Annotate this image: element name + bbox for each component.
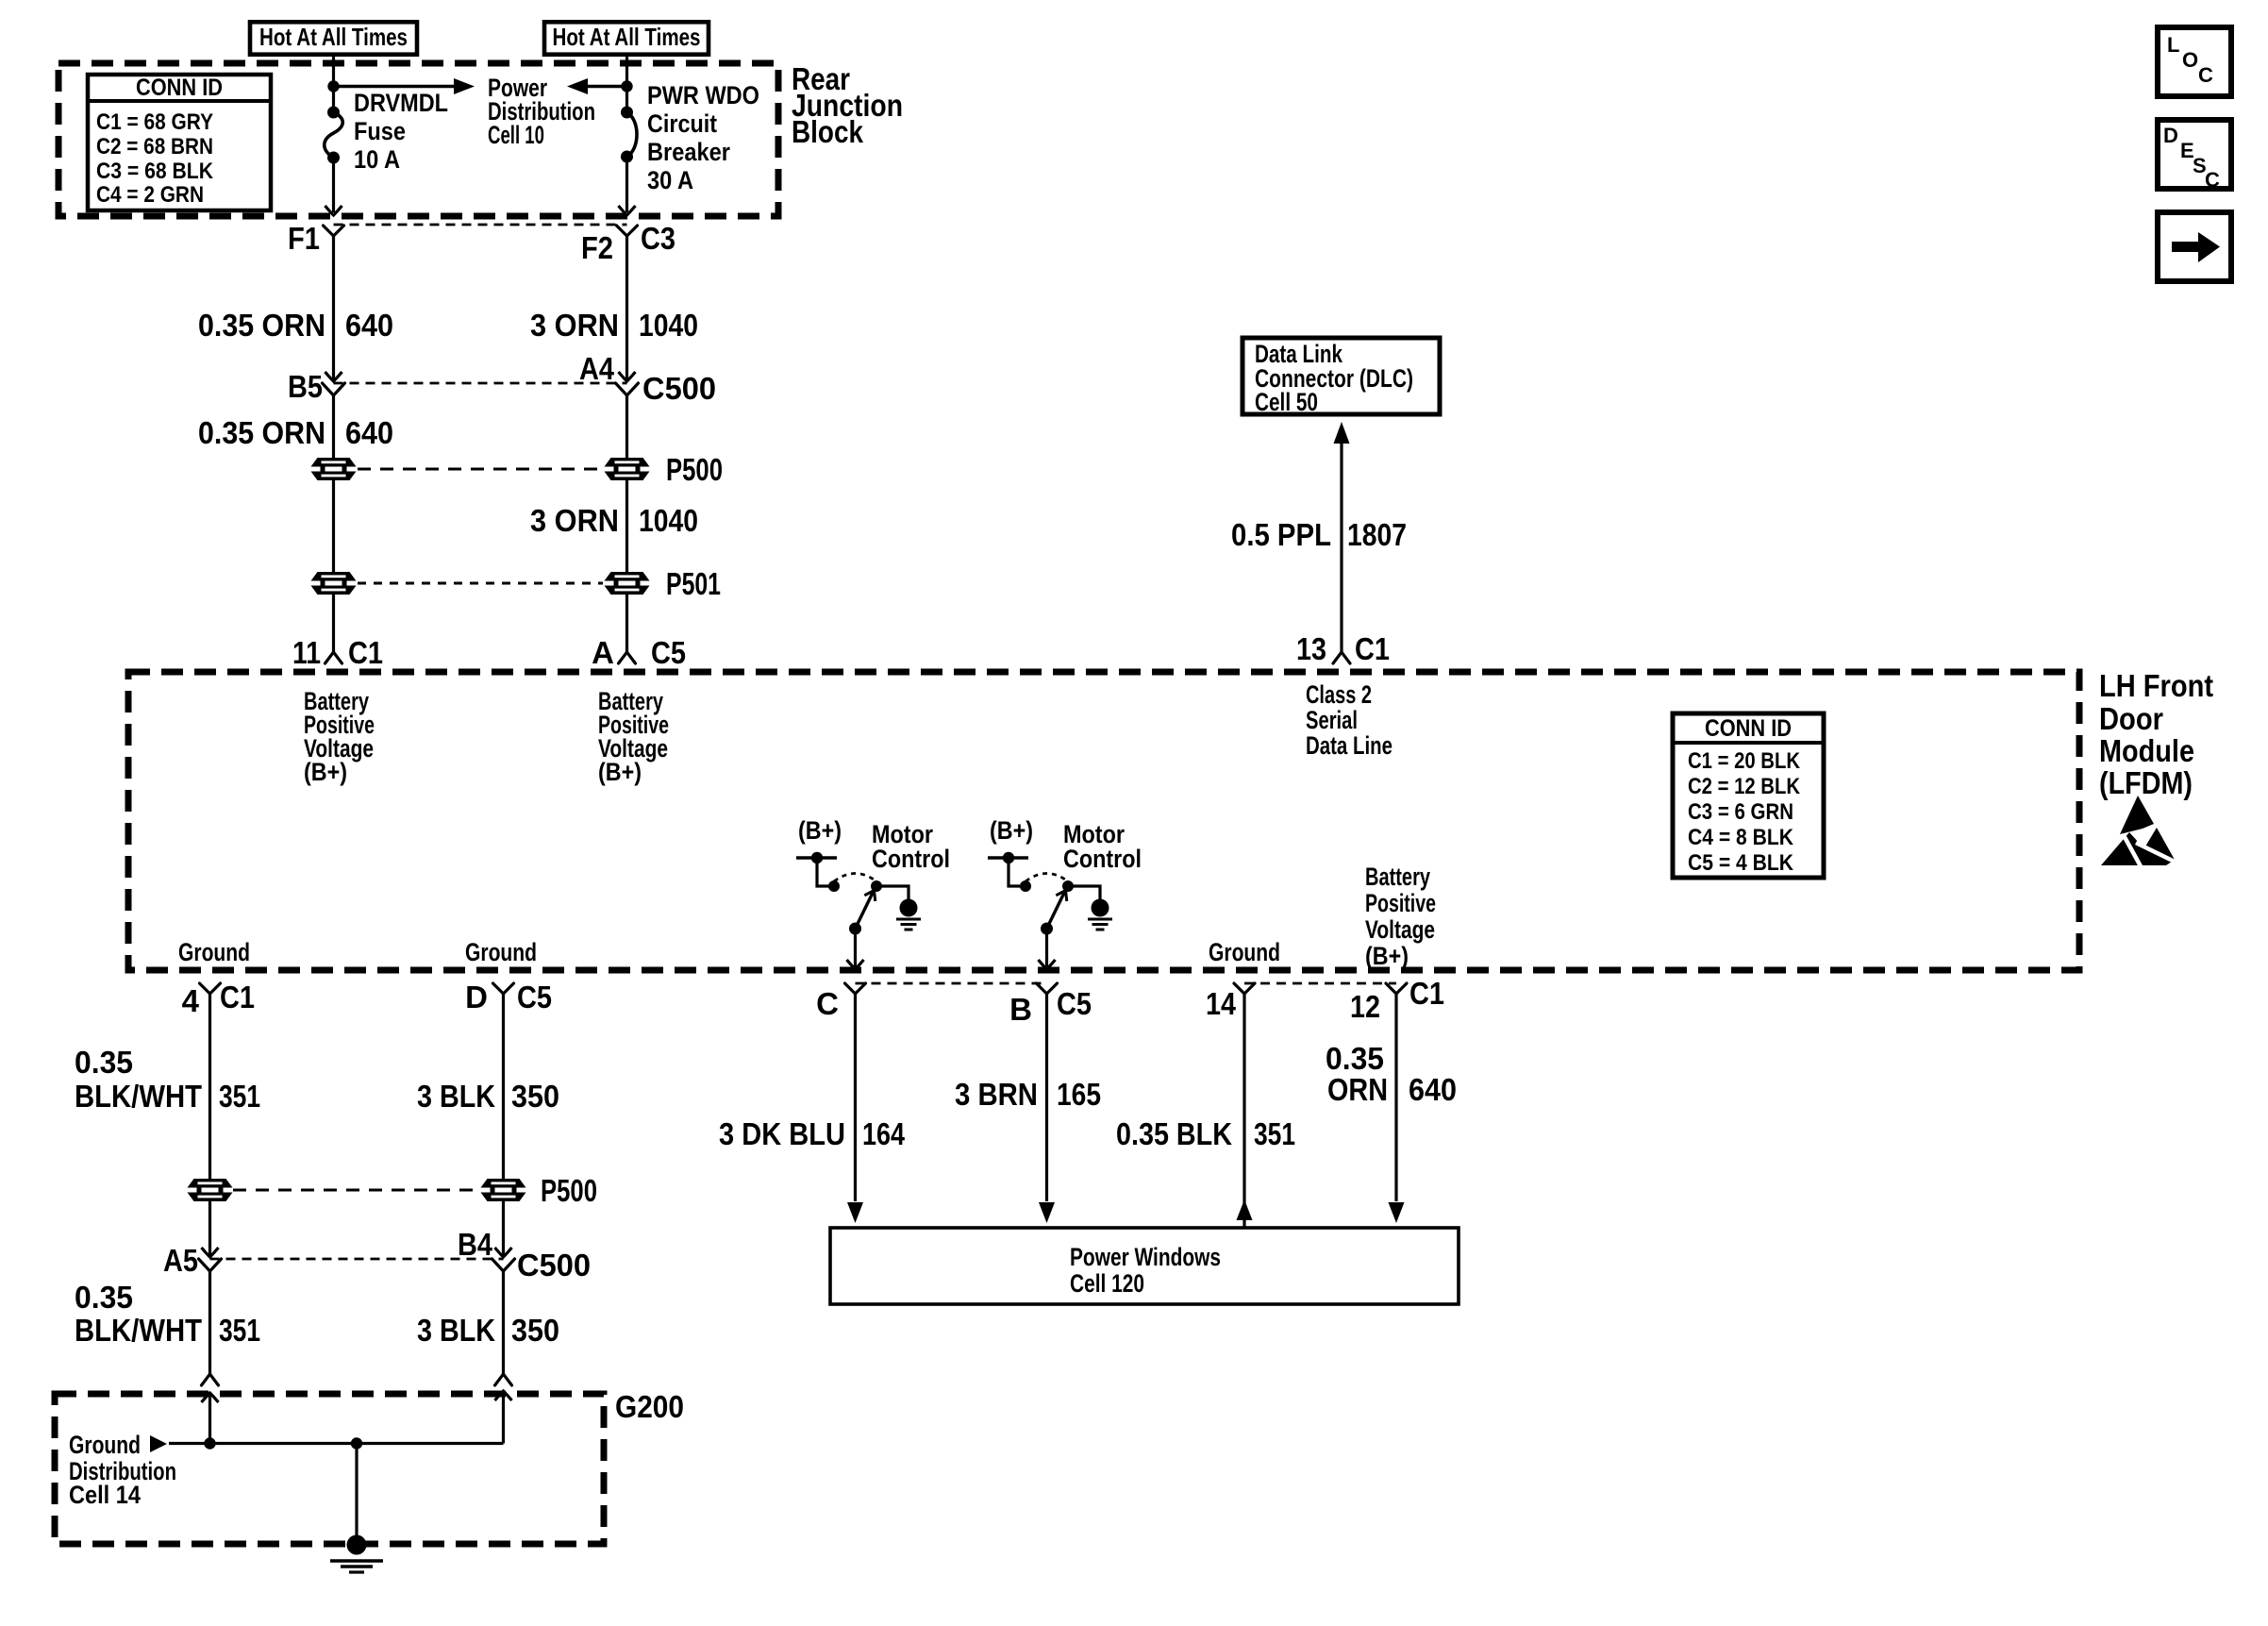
wire from Hot At All Times 1: [332, 57, 335, 112]
connector at G200 left: [202, 1374, 219, 1385]
connector pin A C5: [619, 652, 636, 663]
svg-text:Hot At All Times: Hot At All Times: [553, 23, 701, 51]
svg-text:Door: Door: [2099, 701, 2163, 736]
svg-text:DRVMDL: DRVMDL: [354, 89, 448, 117]
svg-text:P501: P501: [666, 566, 721, 601]
arrow on pin 14 wire (up): [1237, 1199, 1253, 1220]
svg-text:C3 = 68 BLK: C3 = 68 BLK: [96, 159, 214, 184]
svg-text:Cell 14: Cell 14: [69, 1481, 141, 1509]
svg-text:C1 = 20 BLK: C1 = 20 BLK: [1688, 748, 1801, 774]
svg-text:(B+): (B+): [1365, 942, 1409, 970]
svg-text:3 ORN: 3 ORN: [530, 503, 619, 538]
svg-text:C1: C1: [348, 635, 383, 670]
svg-text:Cell 120: Cell 120: [1070, 1269, 1144, 1298]
connector pin 11 C1: [325, 652, 342, 663]
svg-text:Positive: Positive: [1365, 889, 1436, 917]
svg-text:CONN ID: CONN ID: [1705, 715, 1792, 742]
svg-text:O: O: [2182, 48, 2198, 72]
forward arrow box: [2158, 212, 2231, 281]
svg-text:Control: Control: [872, 845, 950, 873]
svg-text:C1 = 68 GRY: C1 = 68 GRY: [96, 109, 213, 135]
svg-text:11: 11: [292, 635, 321, 670]
svg-text:0.35 ORN: 0.35 ORN: [198, 415, 325, 450]
connector pin B C5: [1037, 983, 1058, 994]
svg-text:Battery: Battery: [1365, 863, 1430, 891]
svg-text:4: 4: [182, 983, 200, 1018]
svg-text:BLK/WHT: BLK/WHT: [75, 1313, 202, 1348]
inline connector P500 ground right: [481, 1179, 526, 1201]
svg-text:3 ORN: 3 ORN: [530, 308, 619, 343]
LH Front Door Module dashed box: [128, 672, 2079, 970]
connector A5: [202, 1248, 219, 1257]
connector F1: [324, 226, 344, 236]
svg-text:A4: A4: [579, 351, 615, 386]
svg-text:351: 351: [1254, 1116, 1295, 1151]
svg-text:B: B: [1009, 992, 1032, 1027]
P500 dashed link: [358, 468, 603, 471]
svg-text:Ground: Ground: [1209, 938, 1280, 966]
ground lead wire: [355, 1444, 358, 1538]
svg-text:PWR WDO: PWR WDO: [647, 81, 759, 109]
svg-text:640: 640: [345, 415, 393, 450]
svg-text:12: 12: [1350, 989, 1380, 1024]
svg-text:P500: P500: [541, 1173, 597, 1208]
P501 dashed link: [358, 582, 603, 585]
svg-text:1040: 1040: [639, 503, 698, 538]
connector pin D C5: [493, 983, 514, 994]
svg-text:A: A: [592, 635, 614, 670]
svg-text:P500: P500: [666, 452, 723, 487]
svg-text:Serial: Serial: [1306, 706, 1358, 734]
svg-text:Control: Control: [1063, 845, 1142, 873]
svg-text:0.35: 0.35: [75, 1045, 133, 1080]
connector link F1-F2: [334, 224, 627, 226]
connector pin 4 C1: [200, 983, 221, 994]
connector F2 C3: [617, 226, 638, 236]
svg-text:Class 2: Class 2: [1306, 680, 1372, 709]
arrow pin B wire into Power Windows: [1039, 1202, 1055, 1223]
svg-text:351: 351: [219, 1313, 260, 1348]
svg-text:(B+): (B+): [798, 816, 842, 845]
svg-text:C4 = 8 BLK: C4 = 8 BLK: [1688, 825, 1794, 850]
arrow from breaker wire to Power Distribution: [576, 85, 627, 89]
connector at G200 right: [495, 1374, 512, 1385]
DESC reference box: [2158, 120, 2231, 189]
svg-text:B4: B4: [458, 1227, 493, 1262]
CONN ID table (Rear Junction Block): [88, 75, 271, 210]
Power Windows Cell 120 box: [830, 1228, 1459, 1304]
CONN ID table (LFDM): [1673, 713, 1824, 878]
Data Link Connector (DLC) box: [1242, 338, 1440, 414]
wire P501 to pin A: [625, 595, 628, 653]
wire from Hot At All Times 2: [625, 57, 628, 112]
inline connector P500 ground left: [188, 1179, 233, 1201]
wire P501 to pin 11: [332, 595, 335, 653]
wire P500 to P501 right: [625, 480, 628, 572]
svg-text:3 BLK: 3 BLK: [417, 1313, 495, 1348]
wire below fuse: [332, 158, 335, 212]
svg-text:CONN ID: CONN ID: [136, 75, 223, 101]
Hot At All Times box 1: [250, 22, 417, 54]
connector pin 12 C1: [1386, 983, 1407, 994]
circuit breaker PWR WDO 30 A: [621, 107, 633, 119]
LOC reference box: [2158, 27, 2231, 96]
inline connector P500 left half: [311, 458, 357, 480]
svg-text:Cell 10: Cell 10: [488, 121, 544, 149]
svg-text:(B+): (B+): [304, 758, 347, 786]
svg-text:Fuse: Fuse: [354, 117, 406, 145]
motor control switch 1 (window up): [796, 816, 950, 969]
svg-text:C5 = 4 BLK: C5 = 4 BLK: [1688, 850, 1794, 876]
svg-text:C1: C1: [1409, 976, 1444, 1011]
svg-text:351: 351: [219, 1079, 260, 1114]
svg-text:BLK/WHT: BLK/WHT: [75, 1079, 202, 1114]
connector link C-B: [856, 982, 1047, 985]
wire P500 to B4: [502, 1201, 505, 1256]
svg-text:LH Front: LH Front: [2099, 668, 2213, 703]
svg-text:ORN: ORN: [1327, 1072, 1388, 1107]
connector B5: [325, 372, 342, 381]
svg-text:F1: F1: [288, 221, 320, 256]
Rear Junction Block dashed box: [58, 63, 778, 216]
connector A4 C500: [619, 372, 636, 381]
svg-text:C1: C1: [1355, 631, 1390, 666]
svg-text:C: C: [2205, 168, 2220, 192]
ESD sensitive device symbol: [2101, 796, 2176, 866]
motor control switch 2 (window down): [988, 816, 1142, 969]
svg-text:Breaker: Breaker: [647, 138, 730, 166]
svg-text:D: D: [2163, 124, 2178, 147]
svg-text:Ground: Ground: [465, 938, 537, 966]
svg-text:C5: C5: [651, 635, 686, 670]
svg-text:B5: B5: [288, 369, 323, 404]
svg-text:Ground: Ground: [69, 1431, 141, 1459]
Class 2 serial data wire: [1340, 427, 1342, 653]
svg-text:350: 350: [511, 1313, 559, 1348]
svg-text:C5: C5: [517, 980, 552, 1014]
svg-text:Voltage: Voltage: [1365, 915, 1435, 944]
wire below breaker: [625, 157, 628, 212]
wire P500 to A5: [208, 1201, 211, 1256]
fuse DRVMDL 10 A: [327, 107, 340, 119]
junction node on fuse wire: [327, 80, 339, 92]
connector B4 C500: [495, 1248, 512, 1257]
svg-text:(B+): (B+): [990, 816, 1033, 845]
svg-text:3 DK BLU: 3 DK BLU: [719, 1116, 845, 1151]
ground bus wire: [169, 1442, 504, 1445]
inline connector P500 right half: [605, 458, 650, 480]
svg-text:0.35 BLK: 0.35 BLK: [1116, 1116, 1232, 1151]
junction node on breaker wire: [621, 80, 632, 92]
svg-text:14: 14: [1206, 986, 1237, 1021]
P500 ground dashed link: [233, 1189, 479, 1192]
connector pin C: [845, 983, 866, 994]
connector link 14-12: [1244, 982, 1396, 985]
svg-text:C4 = 2 GRN: C4 = 2 GRN: [96, 182, 204, 208]
svg-text:Power Windows: Power Windows: [1070, 1243, 1221, 1271]
Hot At All Times box 2: [544, 22, 709, 54]
inline connector P501 right half: [605, 572, 650, 595]
svg-text:Module: Module: [2099, 733, 2194, 768]
svg-text:Data Line: Data Line: [1306, 731, 1392, 760]
connector link B5-A4: [334, 382, 627, 385]
svg-text:C2 = 68 BRN: C2 = 68 BRN: [96, 134, 213, 159]
svg-text:3 BLK: 3 BLK: [417, 1079, 495, 1114]
svg-text:Block: Block: [792, 114, 864, 149]
connector link A5-B4: [210, 1258, 504, 1261]
svg-text:D: D: [465, 980, 488, 1014]
svg-text:Circuit: Circuit: [647, 109, 717, 138]
svg-text:L: L: [2167, 33, 2179, 57]
svg-text:(B+): (B+): [598, 758, 642, 786]
svg-text:C500: C500: [517, 1248, 591, 1282]
svg-text:C3 = 6 GRN: C3 = 6 GRN: [1688, 799, 1793, 825]
svg-text:1807: 1807: [1347, 517, 1407, 552]
svg-text:C2 = 12 BLK: C2 = 12 BLK: [1688, 774, 1801, 799]
svg-text:0.5 PPL: 0.5 PPL: [1231, 517, 1331, 552]
svg-text:C5: C5: [1057, 986, 1092, 1021]
junction node on ground bus (left): [204, 1437, 215, 1449]
junction node on ground bus (center): [351, 1437, 362, 1449]
connector pin 13 C1: [1333, 652, 1350, 663]
svg-text:1040: 1040: [639, 308, 698, 343]
svg-text:640: 640: [1409, 1072, 1457, 1107]
svg-text:30 A: 30 A: [647, 166, 693, 194]
svg-text:10 A: 10 A: [354, 145, 400, 174]
svg-text:(LFDM): (LFDM): [2099, 765, 2193, 800]
svg-text:C: C: [816, 986, 839, 1021]
arrow pin C wire into Power Windows: [847, 1202, 863, 1223]
svg-text:0.35: 0.35: [1326, 1041, 1384, 1076]
svg-text:164: 164: [862, 1116, 906, 1151]
svg-text:13: 13: [1296, 631, 1326, 666]
svg-text:0.35 ORN: 0.35 ORN: [198, 308, 325, 343]
svg-text:Cell 50: Cell 50: [1255, 388, 1318, 416]
svg-text:C1: C1: [220, 980, 255, 1014]
svg-text:Hot At All Times: Hot At All Times: [259, 23, 408, 51]
svg-text:C: C: [2198, 63, 2213, 87]
inline connector P501 left half: [311, 572, 357, 595]
svg-text:0.35: 0.35: [75, 1280, 133, 1315]
svg-text:C500: C500: [642, 371, 716, 406]
arrow to Power Distribution cell: [334, 85, 466, 89]
connector pin 14: [1234, 983, 1255, 994]
wire P500 to P501 left: [332, 480, 335, 572]
svg-text:F2: F2: [581, 230, 613, 265]
arrow pin 12 wire into Power Windows: [1389, 1202, 1405, 1223]
svg-text:640: 640: [345, 308, 393, 343]
ground G200 symbol: [347, 1535, 367, 1555]
svg-text:3 BRN: 3 BRN: [955, 1077, 1038, 1112]
svg-text:350: 350: [511, 1079, 559, 1114]
svg-text:G200: G200: [615, 1389, 684, 1424]
svg-text:A5: A5: [163, 1243, 198, 1278]
svg-text:C3: C3: [641, 221, 675, 256]
svg-text:Ground: Ground: [178, 938, 250, 966]
ground distribution pointer triangle: [150, 1435, 167, 1452]
G200 ground dashed box: [55, 1394, 604, 1544]
svg-text:165: 165: [1057, 1077, 1101, 1112]
